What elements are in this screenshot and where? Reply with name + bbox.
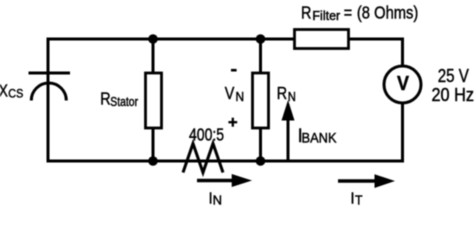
label IT [351,190,363,208]
svg-text:I: I [351,190,355,207]
svg-text:V: V [225,83,235,103]
wire bottom rail [48,160,404,163]
svg-text:(8 Ohms): (8 Ohms) [357,3,418,23]
wire VN branch [259,39,262,161]
capacitor XCS [29,73,71,101]
svg-text:N: N [288,89,296,104]
svg-text:400:5: 400:5 [189,125,224,145]
svg-text:Stator: Stator [110,95,138,109]
junction dot top-right [256,34,266,44]
svg-text:T: T [355,193,363,207]
wire left branch [47,38,50,163]
svg-text:V: V [397,73,409,95]
voltmeter V [384,66,421,103]
arrow IN [197,174,252,187]
label XCS [0,82,24,101]
svg-text:R: R [277,84,287,104]
wire below voltmeter [401,103,404,163]
label RStator [100,89,138,109]
svg-text:20 Hz: 20 Hz [432,84,474,105]
svg-text:=: = [344,3,352,23]
wire stator branch [152,39,155,161]
svg-text:Filter: Filter [312,9,340,23]
junction dot bottom-left [148,156,158,166]
svg-text:CS: CS [8,88,23,101]
arrow IBANK [282,100,295,161]
svg-text:N: N [236,90,245,104]
svg-text:R: R [100,89,110,109]
resistor RStator [146,73,162,128]
label IBANK [298,124,337,146]
label plus [228,118,237,127]
label RFilter = (8 Ohms) [301,3,418,23]
wire right branch (to voltmeter) [401,38,404,67]
label minus [231,69,237,72]
junction dot top-left [148,34,158,44]
current transformer 400:5 [183,144,223,173]
resistor RN / source VN [253,73,269,128]
arrow IT [338,174,395,188]
resistor RFilter [295,30,349,49]
wire top rail [48,38,404,41]
svg-text:X: X [0,82,8,101]
svg-text:BANK: BANK [302,130,337,146]
junction dot bottom-right [256,156,266,166]
label VN [225,83,244,104]
label RN [277,84,296,104]
svg-text:N: N [213,193,222,208]
svg-text:R: R [301,3,311,23]
label IN [209,190,222,208]
